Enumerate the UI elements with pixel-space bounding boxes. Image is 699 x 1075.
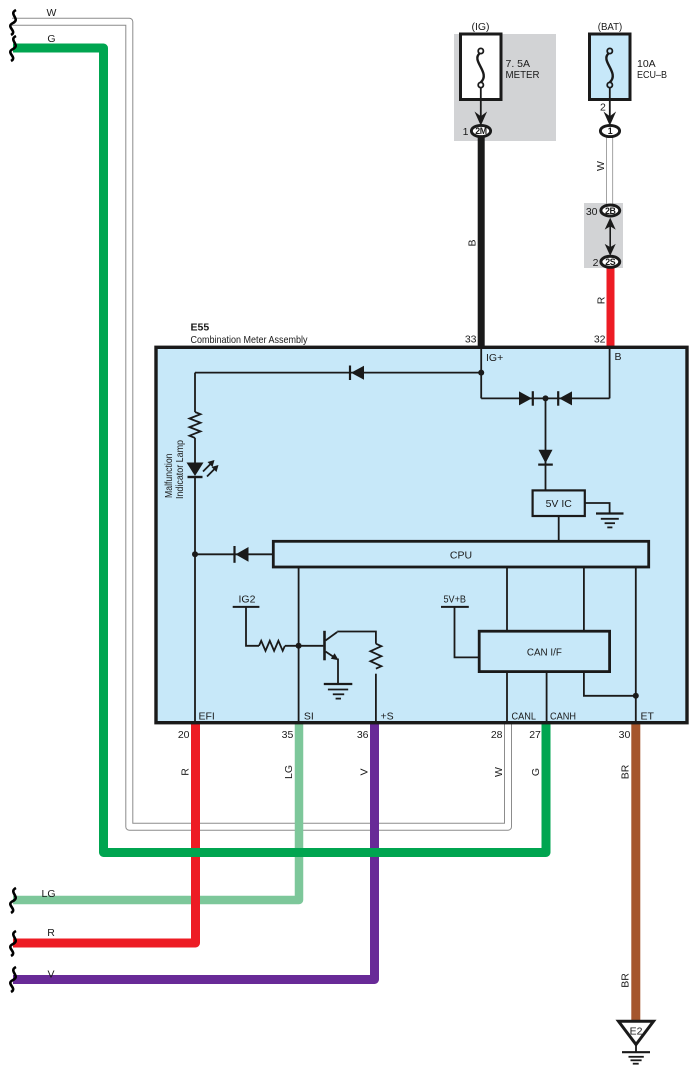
svg-text:20: 20 — [178, 729, 190, 741]
squiggle end of wire R bottom-left — [10, 931, 16, 956]
wire bridge to 5V IC — [545, 398, 547, 490]
svg-text:(IG): (IG) — [471, 21, 489, 33]
svg-text:SI: SI — [304, 711, 314, 723]
svg-text:W: W — [493, 767, 505, 777]
svg-text:V: V — [47, 969, 54, 981]
wire MIL vertical upper — [194, 373, 196, 412]
diode D2 (pointing right) — [519, 391, 533, 406]
fuse F2 (BAT) 10A ECU-B — [590, 21, 668, 100]
squiggle end of wire G top-left — [10, 36, 16, 61]
node junction IG+ — [478, 370, 484, 376]
svg-text:2: 2 — [593, 257, 599, 269]
svg-text:Combination Meter Assembly: Combination Meter Assembly — [191, 334, 309, 346]
svg-text:E55: E55 — [191, 322, 210, 334]
wire emitter to ground — [337, 659, 339, 684]
svg-text:EFI: EFI — [199, 711, 215, 723]
label W wire bottom — [493, 767, 505, 777]
resistor R1 (MIL) — [190, 412, 201, 438]
label W wire — [595, 161, 607, 171]
connector arrow into 1 — [604, 112, 617, 126]
wire 5V IC to CPU — [558, 516, 560, 541]
diode D4 (pointing left, MIL drive) — [235, 546, 249, 563]
svg-text:+S: +S — [381, 711, 394, 723]
wire fuse IG to connector 2M — [480, 88, 482, 118]
svg-text:ET: ET — [641, 711, 655, 723]
terminal bar IG2 — [233, 606, 260, 608]
wire CPU to CAN I/F right — [583, 567, 585, 631]
wire 5V+B to CAN I/F — [455, 607, 480, 658]
ground (emitter) — [324, 684, 353, 699]
svg-text:IG+: IG+ — [486, 352, 503, 364]
svg-text:2: 2 — [600, 102, 606, 114]
label BR wire upper — [620, 764, 632, 779]
shaded block behind IG fuse — [454, 34, 556, 141]
svg-text:R: R — [596, 296, 608, 304]
connector 2B — [586, 205, 620, 218]
svg-text:35: 35 — [282, 729, 294, 741]
wire resistor to base — [285, 645, 323, 647]
svg-text:BR: BR — [620, 973, 632, 988]
wire LED to EFI pin — [194, 478, 196, 723]
node junction ET — [633, 693, 639, 699]
svg-text:32: 32 — [594, 334, 606, 346]
svg-text:CPU: CPU — [450, 550, 472, 562]
wire W (white, from top-left to CANL pin 28) — [12, 22, 508, 827]
node junction base — [296, 643, 302, 649]
svg-text:30: 30 — [619, 729, 631, 741]
wire resistor to LED — [194, 438, 196, 463]
diode D5 (pointing down) — [538, 450, 553, 465]
wire R (red, from 2S to pin 32) — [607, 267, 615, 347]
squiggle end of wire V bottom-left — [10, 967, 16, 992]
svg-text:B: B — [615, 351, 622, 363]
wire W (white, fuse BAT connector 1 to 2B) — [606, 136, 613, 204]
svg-text:1: 1 — [463, 126, 469, 138]
svg-text:V: V — [359, 768, 371, 775]
svg-text:2M: 2M — [475, 126, 487, 136]
diode D3 (pointing left) — [558, 391, 572, 406]
label LG wire bottom — [283, 765, 295, 779]
wire CANL (CAN I/F to pin) — [506, 672, 508, 723]
wire +S to pin — [375, 674, 377, 723]
LED MIL (malfunction indicator lamp) — [187, 460, 219, 477]
svg-text:33: 33 — [465, 334, 477, 346]
wire fuse BAT to connector 1 — [609, 88, 611, 118]
wire CAN I/F to ET node — [584, 672, 636, 696]
wire MIL top horizontal — [195, 372, 481, 374]
regulator 5V IC — [533, 490, 585, 516]
diode D1 (pointing left, on MIL feed) — [350, 366, 364, 381]
svg-text:IG2: IG2 — [239, 594, 256, 606]
wire MIL cathode to CPU — [195, 553, 273, 555]
terminal bar 5V+B — [441, 606, 469, 608]
wire 5V IC to ground — [585, 503, 610, 513]
wire B vertical — [609, 349, 611, 398]
node junction MIL line — [192, 551, 198, 557]
svg-text:27: 27 — [529, 729, 541, 741]
svg-text:BR: BR — [620, 764, 632, 779]
transistor Q1 — [325, 631, 339, 661]
wire diode bridge horizontal — [481, 397, 609, 399]
wire collector to +S line — [337, 632, 376, 644]
fuse F1 (IG) 7.5A METER — [461, 21, 540, 100]
label BR wire lower — [620, 973, 632, 988]
wire R (red, from EFI pin 20 to bottom-left) — [13, 723, 196, 943]
connector 2M — [463, 125, 491, 138]
wire G (green, from top-left to CANH pin 27) — [13, 48, 546, 853]
resistor R3 (+S pull) — [370, 644, 381, 669]
svg-text:CAN I/F: CAN I/F — [527, 647, 562, 659]
wire CPU to CAN I/F left — [506, 567, 508, 631]
shaded block behind 2B/2S joint connector — [584, 203, 623, 268]
joint link double arrow 2B to 2S — [605, 218, 616, 256]
squiggle end of wire LG bottom-left — [10, 888, 16, 913]
wire IG+ vertical — [480, 349, 482, 398]
wire BR (brown, from ET pin 30 to ground E2) — [631, 723, 640, 1021]
svg-text:W: W — [47, 7, 57, 19]
wire B (black, from 2M to pin 33) — [478, 136, 485, 347]
svg-text:5V+B: 5V+B — [444, 594, 467, 606]
svg-text:CANL: CANL — [512, 711, 537, 723]
svg-text:METER: METER — [506, 69, 540, 81]
svg-text:1: 1 — [608, 126, 613, 136]
label Malfunction Indicator Lamp — [163, 453, 175, 498]
svg-text:G: G — [47, 33, 55, 45]
ground (5V IC) — [596, 514, 624, 528]
node junction diode bridge — [543, 395, 549, 401]
wire IG2 to resistor — [246, 607, 259, 646]
wire V (violet, from +S pin 36 to bottom-left) — [13, 723, 375, 980]
svg-text:LG: LG — [41, 888, 55, 900]
wire CANH (CAN I/F to pin) — [546, 672, 548, 723]
wire SI (CPU to pin) — [298, 567, 300, 723]
label R wire — [596, 296, 608, 304]
svg-text:R: R — [180, 768, 192, 776]
E55 Combination Meter Assembly box — [156, 322, 687, 723]
svg-text:Indicator Lamp: Indicator Lamp — [174, 440, 186, 499]
svg-text:30: 30 — [586, 206, 598, 218]
svg-text:W: W — [595, 161, 607, 171]
CAN I/F U2 — [479, 631, 609, 671]
svg-text:ECU–B: ECU–B — [637, 69, 667, 81]
svg-text:(BAT): (BAT) — [598, 21, 623, 33]
svg-text:LG: LG — [283, 765, 295, 779]
squiggle end of wire W top-left — [10, 10, 16, 35]
svg-text:R: R — [47, 927, 55, 939]
svg-text:2S: 2S — [605, 257, 616, 267]
label R wire bottom — [180, 768, 192, 776]
svg-text:E2: E2 — [630, 1026, 643, 1038]
svg-text:36: 36 — [357, 729, 369, 741]
ground E2 — [619, 1021, 654, 1063]
wire CPU to ET pin — [635, 567, 637, 723]
wire LG (light green, from SI pin 35 to bottom-left) — [13, 723, 299, 900]
svg-text:2B: 2B — [605, 206, 616, 216]
svg-text:5V IC: 5V IC — [546, 498, 573, 510]
CPU U1 — [273, 541, 648, 567]
connector 2S — [593, 256, 620, 269]
label G wire bottom — [530, 768, 542, 776]
resistor R2 (base) — [259, 641, 285, 651]
label V wire bottom — [359, 768, 371, 775]
connector 1 — [600, 125, 619, 136]
svg-text:B: B — [467, 239, 479, 246]
svg-text:G: G — [530, 768, 542, 776]
svg-text:28: 28 — [491, 729, 503, 741]
label B wire — [467, 239, 479, 246]
svg-text:CANH: CANH — [550, 711, 576, 723]
connector arrow into 2M — [475, 112, 488, 126]
